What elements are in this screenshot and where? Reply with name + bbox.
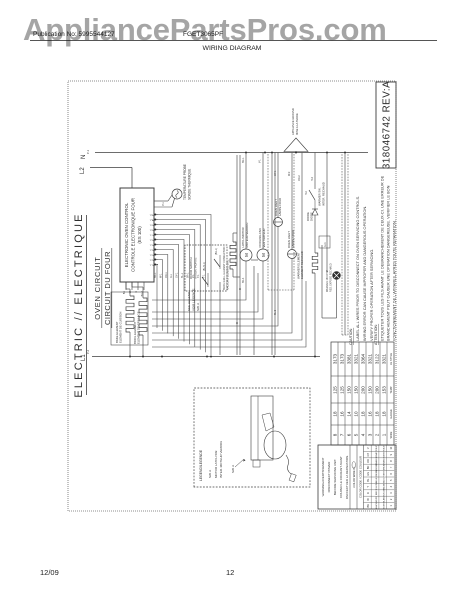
U1 pin 5 stub and pad: [154, 244, 158, 246]
part number box: [376, 82, 396, 168]
table row line y=298: [365, 342, 367, 445]
junction L1 staircase top: [161, 356, 163, 358]
svg-text:SW. A: SW. A: [196, 303, 200, 311]
svg-text:BR: BR: [366, 465, 370, 469]
table column line x=86: [331, 424, 394, 426]
svg-text:CAUTION:: CAUTION:: [349, 328, 353, 345]
svg-text:10: 10: [354, 411, 359, 417]
switch S3 warmer: [309, 190, 315, 200]
wire warmer sub b2: [321, 311, 323, 318]
svg-text:BL-2: BL-2: [274, 309, 277, 315]
wire harness run from U1 pin 3: [158, 255, 168, 334]
svg-text:LAMPE FOUR: LAMPE FOUR: [291, 230, 295, 248]
svg-text:150: 150: [368, 386, 373, 394]
wire warmer sub b: [322, 317, 337, 319]
svg-text:PA-1: PA-1: [149, 219, 154, 222]
elements enclosure box: [111, 292, 148, 345]
svg-text:R-1: R-1: [170, 273, 173, 278]
svg-text:LAMPE FOUR: LAMPE FOUR: [278, 198, 282, 216]
motor M2 cooling fan: [257, 249, 269, 261]
svg-text:L2: L2: [80, 167, 86, 174]
svg-text:MOTEUR VERROU: MOTEUR VERROU: [245, 223, 249, 248]
svg-text:P6-1: P6-1: [149, 239, 154, 241]
svg-text:7: 7: [389, 466, 393, 468]
lamp DS2 oven light 2: [288, 250, 297, 259]
svg-text:V: V: [366, 447, 370, 449]
svg-text:FGET3065PF: FGET3065PF: [183, 31, 223, 38]
wire U1 to probe a: [154, 206, 172, 208]
junction cross A: [236, 322, 238, 324]
wire grill right stub: [232, 233, 234, 242]
header rule: [30, 40, 437, 42]
wire harness run from U1 pin 11: [158, 215, 211, 356]
warning divider: [349, 445, 351, 509]
U1 left pin stub R: [137, 282, 139, 290]
legend dashed box: [194, 388, 310, 487]
table row line y=284: [351, 342, 353, 445]
svg-text:VOIR LEGENDE: VOIR LEGENDE: [192, 288, 196, 311]
wire warmer elem to diode: [314, 231, 316, 253]
wire L1 bus: [92, 356, 320, 358]
wire broil to L1: [142, 335, 144, 357]
U1 pin 11 stub and pad: [154, 214, 158, 216]
color divider: [356, 445, 358, 509]
junction N 6: [344, 152, 346, 154]
svg-text:3173: 3173: [333, 353, 338, 364]
subtitle underline 2: [111, 248, 113, 328]
svg-text:125: 125: [333, 386, 338, 394]
wire warmer switch to N: [314, 153, 316, 190]
svg-text:125: 125: [340, 386, 345, 394]
wire bake up: [126, 288, 130, 290]
wire N feeder lower: [326, 153, 328, 273]
svg-text:153: 153: [382, 386, 387, 394]
svg-text:M: M: [244, 253, 249, 257]
svg-text:M: M: [261, 253, 266, 257]
svg-text:14: 14: [347, 411, 352, 417]
thermal cutoff F1 filled: [332, 271, 340, 279]
warning block outer rect: [318, 445, 396, 509]
svg-text:COUPER LE COURANT AVANT: COUPER LE COURANT AVANT: [339, 456, 343, 498]
switch S2 door: [214, 259, 220, 267]
svg-text:N: N: [81, 155, 87, 159]
svg-text:ELEMENT DE CUISSON: ELEMENT DE CUISSON: [119, 312, 123, 343]
svg-text:MOTOR LATCH SW.: MOTOR LATCH SW.: [214, 450, 218, 478]
warmer dashed top: [341, 153, 343, 336]
svg-text:INTER. MOTEUR VERROU: INTER. MOTEUR VERROU: [219, 441, 223, 478]
svg-text:COLOR WIRE FL: COLOR WIRE FL: [352, 466, 356, 488]
svg-text:COLOR CODE / CODE COULEUR: COLOR CODE / CODE COULEUR: [359, 456, 363, 498]
junction L1 broil: [142, 356, 144, 358]
svg-text:Y-1: Y-1: [197, 274, 200, 278]
wire probe lead b: [168, 195, 172, 201]
svg-text:AppliancePartsPros.com: AppliancePartsPros.com: [23, 12, 387, 47]
svg-text:D'EFFECTUER LA REPARATION.: D'EFFECTUER LA REPARATION.: [345, 455, 349, 499]
junction N 3: [271, 152, 273, 154]
svg-text:3321: 3321: [368, 353, 373, 364]
table column line x=108: [331, 402, 394, 404]
diode D1: [312, 209, 318, 215]
junction L1 bake: [129, 356, 131, 358]
svg-text:WIRING DIAGRAM: WIRING DIAGRAM: [203, 45, 262, 52]
junction N 2: [264, 152, 266, 154]
svg-text:4: 4: [389, 485, 393, 487]
U1 pin 9 stub and pad: [154, 224, 158, 226]
motor M1 latch: [240, 249, 252, 261]
svg-text:H-3: H-3: [311, 176, 314, 181]
color code grid: [370, 445, 372, 509]
svg-text:12/09: 12/09: [40, 568, 59, 577]
wire N bus: [95, 152, 368, 154]
wire harness run from U1 pin 4: [158, 250, 173, 337]
svg-text:8: 8: [389, 460, 393, 462]
svg-text:P1-1: P1-1: [149, 264, 154, 266]
svg-text:VIOLET: VIOLET: [376, 444, 378, 452]
svg-text:BLEU: BLEU: [384, 477, 386, 483]
wire harness run from U1 pin 8: [158, 230, 195, 347]
table outer rect: [331, 342, 394, 445]
wire grill right drop: [233, 232, 237, 234]
wire U1 to probe b: [154, 200, 168, 202]
ground triangle on N bus: [284, 138, 308, 152]
svg-text:150: 150: [347, 386, 352, 394]
wire long run C: [271, 153, 273, 356]
svg-text:TEMP: TEMP: [389, 386, 393, 393]
svg-text:P-1: P-1: [86, 149, 90, 154]
wire harness run from U1 pin 10: [158, 220, 206, 353]
wire L2 drop: [90, 167, 132, 169]
svg-text:6: 6: [389, 473, 393, 475]
svg-text:UL STYLE: UL STYLE: [389, 353, 393, 365]
svg-text:WARNING/AVERTISSEMENT: WARNING/AVERTISSEMENT: [321, 457, 325, 496]
switch S1 door: [202, 277, 208, 285]
svg-text:FONCTIONNEMENT DE L'APPAREIL A: FONCTIONNEMENT DE L'APPAREIL APRES TOUTE…: [392, 220, 397, 341]
svg-text:LABEL ALL WIRES PRIOR TO DISCO: LABEL ALL WIRES PRIOR TO DISCONNECT ON O…: [355, 196, 360, 341]
wire warmer bottom run: [344, 153, 346, 336]
svg-text:GY-1: GY-1: [274, 170, 277, 176]
svg-text:OR-2: OR-2: [298, 175, 301, 181]
wire bundle run 4 to component column: [152, 227, 278, 327]
wire M1-M2 join: [251, 259, 258, 261]
connector H-1 rect: [319, 236, 330, 248]
svg-text:ELECTRONIC OVEN CONTROL: ELECTRONIC OVEN CONTROL: [124, 202, 129, 267]
junction N 4: [295, 152, 297, 154]
wire broil right: [142, 287, 144, 298]
svg-text:SONDE THERMIQUE: SONDE THERMIQUE: [188, 169, 192, 200]
svg-text:W: W: [366, 498, 370, 501]
legend motor latch drawing: [251, 396, 273, 460]
svg-text:R: R: [366, 492, 370, 494]
svg-text:OVEN CIRCUIT: OVEN CIRCUIT: [93, 256, 102, 319]
wire harness run from U1 pin 5: [158, 245, 179, 339]
svg-text:BL: BL: [366, 478, 370, 482]
wire L2 into control: [131, 168, 133, 189]
junction on L1 at staircase: [206, 356, 208, 358]
junction L1 staircase deep: [210, 356, 212, 358]
wire bake to L1: [129, 332, 131, 357]
wire warmer sub a: [321, 245, 323, 311]
wire broil to U1: [131, 282, 133, 287]
DS1 filament line: [274, 221, 283, 223]
DS2 filament line: [288, 253, 297, 255]
svg-text:9: 9: [389, 453, 393, 455]
wire diode branch: [301, 153, 303, 252]
color grid top line: [363, 445, 365, 509]
U1 pin 8 stub and pad: [154, 229, 158, 231]
wire harness run from U1 pin 1: [157, 265, 158, 329]
table row line y=312: [379, 342, 381, 445]
wire M2 to N: [262, 153, 264, 250]
wire harness run from U1 pin 2: [158, 260, 162, 331]
svg-text:3321: 3321: [382, 353, 387, 364]
svg-text:4: 4: [361, 433, 366, 436]
svg-text:SW. A: SW. A: [231, 465, 235, 473]
table row line y=319: [386, 342, 388, 445]
svg-text:ELEMENT RECHAUD: ELEMENT RECHAUD: [300, 251, 304, 279]
wire bundle run 5 to component column: [152, 261, 263, 319]
svg-text:P9-1: P9-1: [149, 224, 154, 226]
svg-text:DIODE: DIODE: [310, 212, 314, 221]
svg-text:P5-1: P5-1: [149, 244, 154, 246]
wire bundle run 1 to component column: [152, 281, 306, 347]
door switch assembly dashed box: [185, 245, 227, 291]
svg-text:16: 16: [368, 411, 373, 417]
table row line y=277: [344, 342, 346, 445]
svg-text:APPLIANCE GROUND: APPLIANCE GROUND: [291, 108, 295, 135]
svg-text:3364: 3364: [361, 353, 366, 364]
wire harness run from U1 pin 9: [158, 225, 200, 350]
U1 left pin stub W: [131, 282, 133, 290]
svg-text:SW. A: SW. A: [208, 470, 212, 478]
svg-text:P7-1: P7-1: [149, 234, 154, 236]
wire U1 ground run: [219, 282, 221, 355]
svg-text:Publication No: 5995544127: Publication No: 5995544127: [33, 31, 115, 38]
svg-text:SEE LEGEND: SEE LEGEND: [187, 291, 191, 311]
controller U1 ELECTRONIC OVEN CONTROL box: [120, 188, 154, 282]
svg-text:CONTROLE ELECTRONIQUE FOUR: CONTROLE ELECTRONIQUE FOUR: [131, 198, 136, 272]
svg-text:RES. EXPOSE RECHAUD: RES. EXPOSE RECHAUD: [330, 263, 333, 292]
svg-text:ATTENTION:: ATTENTION:: [374, 324, 378, 345]
svg-text:VIOLET: VIOLET: [384, 444, 386, 452]
svg-text:H-1: H-1: [323, 242, 327, 247]
dashed enclosure top: [267, 153, 269, 291]
svg-text:P-2: P-2: [86, 349, 90, 354]
svg-text:TEMPERATURE PROBE: TEMPERATURE PROBE: [183, 164, 187, 200]
svg-text:P4-1: P4-1: [149, 249, 154, 251]
svg-text:P-1: P-1: [162, 202, 165, 206]
svg-text:BK: BK: [366, 504, 370, 508]
svg-text:3: 3: [368, 433, 373, 436]
wire probe lead a: [172, 199, 175, 208]
wire warmer sub c: [336, 280, 338, 318]
U1 pin 7 stub and pad: [154, 234, 158, 236]
svg-text:6: 6: [347, 433, 352, 436]
svg-text:2: 2: [389, 498, 393, 500]
table row line y=291: [358, 342, 360, 445]
svg-text:(BK-1): (BK-1): [215, 248, 218, 255]
warmer dashed left: [342, 334, 348, 336]
resistor broil element: [139, 298, 147, 335]
svg-text:GAUGE: GAUGE: [389, 409, 393, 419]
svg-text:10: 10: [389, 446, 393, 449]
dashed enclosure left: [268, 289, 294, 291]
resistor warmer element: [312, 253, 318, 273]
svg-text:BK-4: BK-4: [242, 277, 245, 283]
resistor bake element: [126, 296, 134, 332]
temperature probe B1: [172, 189, 182, 199]
title underline: [86, 215, 88, 395]
svg-text:WHITE: WHITE: [376, 496, 378, 503]
svg-text:(BL/R-1): (BL/R-1): [203, 262, 206, 271]
wire DS1 to N: [277, 153, 279, 218]
wire long run A: [236, 155, 238, 355]
svg-text:150: 150: [354, 386, 359, 394]
wire grill left drop: [233, 276, 240, 278]
svg-text:GN: GN: [366, 472, 370, 476]
wire broil up: [132, 286, 143, 288]
svg-text:W-1: W-1: [159, 273, 162, 278]
svg-text:LEGEND/LEGENDE: LEGEND/LEGENDE: [199, 449, 203, 481]
svg-text:18: 18: [361, 411, 366, 417]
svg-text:T-1: T-1: [203, 274, 206, 278]
svg-text:ELECTRIC // ELECTRIQUE: ELECTRIC // ELECTRIQUE: [73, 212, 85, 397]
U1 pin 10 stub and pad: [154, 219, 158, 221]
svg-text:ETIQUETER TOUS LES FILS AVANT: ETIQUETER TOUS LES FILS AVANT LE DEBRANC…: [380, 175, 385, 341]
junction N 5: [326, 152, 328, 154]
svg-text:12: 12: [226, 568, 234, 577]
svg-text:1: 1: [382, 433, 387, 436]
wire motors run to L1: [253, 266, 255, 355]
U1 left pin stub BK-2: [143, 282, 145, 290]
svg-text:3321: 3321: [354, 353, 359, 364]
svg-text:BRANCHEMENT PEUT CAUSER UNE OP: BRANCHEMENT PEUT CAUSER UNE OPERATION DA…: [386, 185, 391, 341]
svg-text:18: 18: [333, 411, 338, 417]
svg-text:(ES 100): (ES 100): [137, 226, 142, 244]
svg-text:H-2: H-2: [305, 190, 308, 195]
svg-text:V-1: V-1: [259, 159, 262, 163]
svg-text:DISCONNECT POWER: DISCONNECT POWER: [327, 462, 331, 493]
junction on L1 warmer feed: [314, 356, 316, 358]
svg-text:3: 3: [389, 492, 393, 494]
svg-text:200: 200: [375, 386, 380, 394]
table row line y=270: [337, 342, 339, 445]
warmer dashed bottom: [347, 153, 349, 336]
wire DS2 to N: [291, 153, 293, 250]
svg-text:P3-1: P3-1: [149, 254, 154, 256]
wire bake to U1: [125, 282, 127, 289]
svg-text:5: 5: [389, 479, 393, 481]
wire long run B: [239, 155, 241, 355]
svg-text:W-2: W-2: [288, 171, 291, 176]
svg-text:INTER. RECHAUD: INTER. RECHAUD: [322, 182, 326, 206]
U1 pin 1 stub and pad: [154, 264, 158, 266]
resistor grill element: [230, 242, 236, 269]
subtitle underline 1: [101, 248, 103, 328]
wire M1 to N: [245, 153, 247, 250]
wire harness run from U1 pin 7: [158, 235, 189, 345]
svg-text:200: 200: [361, 386, 366, 394]
svg-text:3122: 3122: [375, 353, 380, 364]
svg-text:3173: 3173: [340, 353, 345, 364]
svg-text:BK-1: BK-1: [154, 272, 157, 278]
wire bundle run 7 to component column: [152, 261, 246, 300]
U1 left pin stub BK: [125, 282, 127, 290]
svg-text:1: 1: [389, 505, 393, 507]
svg-text:OR: OR: [366, 459, 370, 463]
svg-text:INTER. PORTE: INTER. PORTE: [194, 258, 198, 279]
svg-text:P2-1: P2-1: [149, 259, 154, 261]
svg-text:MISE A LA TERRE: MISE A LA TERRE: [295, 113, 299, 135]
svg-text:VERT: VERT: [384, 470, 386, 476]
table row line y=305: [372, 342, 374, 445]
svg-text:PB-1: PB-1: [149, 214, 155, 216]
wire harness run from U1 pin 6: [158, 240, 184, 342]
svg-text:5: 5: [354, 433, 359, 436]
svg-text:318046742 REV:A: 318046742 REV:A: [382, 81, 393, 169]
wire bundle run 6 to component column: [152, 273, 258, 312]
dashed enclosure bottom: [293, 153, 295, 291]
svg-text:8: 8: [333, 433, 338, 436]
svg-text:16: 16: [340, 411, 345, 417]
junction cross B: [239, 288, 241, 290]
U1 pin 4 stub and pad: [154, 249, 158, 251]
svg-text:P8-1: P8-1: [149, 229, 154, 231]
svg-text:OR-1: OR-1: [165, 272, 168, 278]
diagram outer border frame: [68, 81, 396, 511]
wire grill left stub: [232, 269, 234, 277]
U1 pin 6 stub and pad: [154, 239, 158, 241]
wire L1 to warmer element: [314, 273, 316, 357]
lamp DS1 oven light: [274, 218, 283, 227]
wire bundle run 2 to component column: [152, 251, 302, 340]
svg-text:18: 18: [375, 411, 380, 417]
wire diode in: [314, 215, 316, 231]
U1 pin 2 stub and pad: [154, 259, 158, 261]
svg-text:DOOR SWITCH: DOOR SWITCH: [189, 257, 193, 279]
svg-text:WIRING ERROR CAN CAUSE IMPROPE: WIRING ERROR CAN CAUSE IMPROPER AND DANG…: [362, 206, 367, 341]
svg-text:BEFORE SERVICING UNIT.: BEFORE SERVICING UNIT.: [333, 459, 337, 496]
U1 pin 3 stub and pad: [154, 254, 158, 256]
junction N 1: [245, 152, 247, 154]
wire bundle run 3 to component column: [152, 259, 292, 334]
wire bake right: [129, 289, 131, 296]
wire long run D: [274, 153, 276, 356]
table column line x=135: [331, 375, 394, 377]
svg-text:VENTILATEUR: VENTILATEUR: [262, 228, 266, 247]
rotated schematic group: [68, 81, 397, 511]
svg-text:Y: Y: [366, 485, 370, 487]
svg-text:GY: GY: [366, 452, 370, 456]
svg-text:BK-2: BK-2: [141, 290, 144, 296]
svg-text:2: 2: [375, 433, 380, 436]
svg-text:18: 18: [382, 411, 387, 417]
svg-text:WIRE: WIRE: [389, 431, 393, 438]
svg-text:GY-1: GY-1: [176, 272, 179, 278]
svg-text:CIRCUIT DU FOUR: CIRCUIT DU FOUR: [103, 251, 112, 325]
svg-text:BR-1: BR-1: [242, 157, 245, 163]
svg-text:BK: BK: [123, 291, 126, 295]
svg-text:BL-1: BL-1: [181, 272, 184, 278]
junction on L1 mid: [273, 356, 275, 358]
svg-text:7: 7: [340, 433, 345, 436]
svg-text:3381: 3381: [347, 353, 352, 364]
